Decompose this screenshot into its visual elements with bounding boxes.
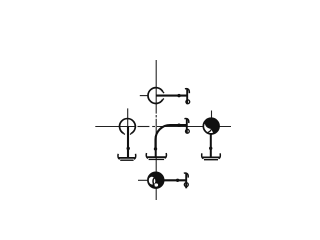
vertical centerline through right view	[211, 111, 213, 136]
center view: bell end (right-facing)	[184, 118, 189, 133]
bottom view: pipe run to the right	[156, 179, 186, 181]
right view: joint dot	[209, 147, 212, 150]
left view: joint dot	[127, 147, 130, 150]
right view: bell end (down-facing)	[202, 153, 221, 159]
center view: pipe stub below arc to bell	[155, 149, 157, 157]
bottom view: joint dot	[176, 179, 179, 182]
vertical centerline above left view	[127, 108, 129, 126]
centerline dash left of top view	[140, 95, 148, 97]
center view: bell end (down-facing)	[146, 153, 166, 159]
center view: joint dot on horizontal leg	[177, 124, 180, 127]
top view: bell end (right-facing)	[185, 88, 190, 104]
bottom view: filled elbow circle (pipe toward viewer)	[148, 172, 164, 188]
bottom view: bell end (right-facing)	[184, 173, 189, 188]
vertical centerline (main axis through top, center and bottom views)	[155, 60, 157, 200]
right view: pipe run downward	[210, 133, 212, 157]
center view: joint dot on vertical leg	[154, 147, 157, 150]
left view: elbow circle (bell mouth opens down)	[120, 119, 136, 135]
left view: pipe run downward	[127, 127, 129, 157]
center view: 90-degree elbow quarter arc	[156, 125, 187, 149]
horizontal centerline (main axis through left, center and right views)	[95, 126, 231, 128]
top view: joint dot	[177, 94, 180, 97]
centerline dash left of bottom view	[138, 179, 148, 181]
left view: bell end (down-facing)	[118, 154, 136, 160]
top view: pipe run to the right	[156, 95, 187, 97]
top view: elbow circle (bell mouth opens right)	[148, 88, 164, 104]
right view: filled elbow circle (pipe toward viewer)	[203, 118, 219, 134]
